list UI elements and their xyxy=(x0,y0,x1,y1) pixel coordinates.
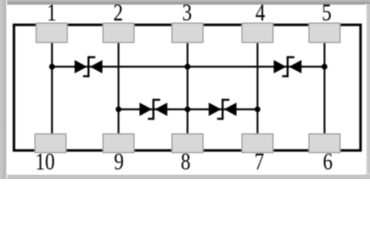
svg-text:7: 7 xyxy=(254,148,264,176)
junction pin9 column / lower net xyxy=(116,106,122,112)
TVS diode D2 (pins 4-5 net, upper row) xyxy=(274,56,302,77)
pad pin 5 xyxy=(309,23,340,42)
pad pin 6 xyxy=(309,134,340,153)
wire upper row net xyxy=(52,66,325,68)
junction pin5 column / upper net xyxy=(322,64,328,70)
wire pin3-pin8 column xyxy=(187,32,189,145)
svg-text:4: 4 xyxy=(255,0,265,26)
pad pin 9 xyxy=(103,134,134,153)
svg-text:9: 9 xyxy=(114,148,124,176)
pad pin 7 xyxy=(242,134,273,153)
junction pin7 column / lower net xyxy=(255,106,261,112)
svg-text:5: 5 xyxy=(322,0,332,26)
svg-text:2: 2 xyxy=(113,0,123,26)
wire pin4-pin7 column xyxy=(257,32,259,145)
svg-text:10: 10 xyxy=(35,148,55,176)
pad pin 3 xyxy=(172,23,203,42)
pad pin 8 xyxy=(172,134,203,153)
TVS diode D3 (pins 9-8 net, lower row) xyxy=(140,99,168,120)
wire pin5-pin6 column xyxy=(324,32,326,145)
TVS diode D1 (pins 1-2 net, upper row) xyxy=(75,56,103,77)
package outline xyxy=(14,25,361,151)
pad pin 1 xyxy=(36,23,67,42)
TVS diode D4 (pins 8-7 net, lower row) xyxy=(209,99,237,120)
pad pin 4 xyxy=(242,23,273,42)
svg-text:3: 3 xyxy=(182,0,192,26)
pad pin 2 xyxy=(103,23,134,42)
junction pin8 column / lower net xyxy=(185,106,191,112)
wire pin1-pin10 column xyxy=(51,32,53,145)
wire lower row net xyxy=(119,108,258,110)
svg-text:6: 6 xyxy=(323,148,333,176)
junction pin3 column / upper net xyxy=(185,64,191,70)
svg-text:8: 8 xyxy=(181,148,191,176)
wire pin2-pin9 column xyxy=(118,32,120,145)
pad pin 10 xyxy=(35,134,66,153)
junction pin1 column / upper net xyxy=(49,64,55,70)
svg-text:1: 1 xyxy=(47,0,57,26)
